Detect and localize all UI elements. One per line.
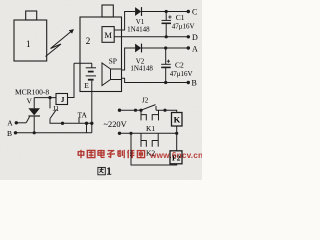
svg-text:1N4148: 1N4148 (127, 26, 150, 34)
wire F2 bottom loop (131, 133, 177, 165)
svg-text:B: B (192, 79, 197, 88)
svg-text:~220V: ~220V (104, 120, 127, 129)
svg-text:www.6ncv.cn: www.6ncv.cn (149, 151, 202, 160)
svg-text:J1: J1 (53, 105, 60, 113)
node: J1 to TA (61, 122, 64, 125)
arrowhead (69, 29, 74, 33)
node: thyristor cathode on B line (33, 131, 36, 134)
svg-text:47μ16V: 47μ16V (170, 70, 193, 78)
TA core tick (78, 117, 80, 123)
contact K1 (141, 110, 159, 120)
node: D line junction (165, 35, 168, 38)
gate lead (26, 117, 29, 123)
red watermark 中国电子制作网 (78, 150, 144, 158)
node: C line junction (165, 10, 168, 13)
motor M box (102, 27, 114, 43)
J2 right post (155, 106, 157, 110)
contact K2 (141, 133, 158, 146)
wire K coil bottom through lower wire to F2 top (176, 126, 178, 151)
svg-text:C2: C2 (175, 61, 184, 70)
receiver box 2 knob (102, 5, 113, 17)
TA loop left vertical (86, 123, 88, 133)
svg-text:2: 2 (86, 36, 91, 46)
wire M bottom to terminal D (114, 36, 188, 38)
svg-text:D: D (192, 33, 198, 42)
relay J box (56, 94, 68, 105)
terminal D (187, 35, 190, 38)
load F2 box (170, 151, 182, 164)
svg-text:K: K (174, 115, 181, 125)
svg-text:1: 1 (26, 39, 31, 49)
diode V1 (135, 7, 142, 16)
caption 图1 (98, 167, 105, 174)
transmitter box 1 (14, 20, 47, 61)
svg-text:C: C (192, 8, 197, 17)
wire M top to V1 riser (114, 12, 135, 31)
node: A line junction (164, 46, 167, 49)
svg-text:V: V (26, 97, 32, 106)
svg-text:47μ16V: 47μ16V (172, 22, 195, 30)
svg-text:A: A (192, 44, 198, 53)
thyristor V MCR100-8 (26, 98, 40, 133)
speaker SP (102, 63, 122, 86)
svg-text:M: M (104, 30, 112, 40)
receiver box 2 (80, 17, 122, 92)
transmitter box 1 knob (26, 11, 37, 20)
svg-text:1N4148: 1N4148 (130, 65, 153, 73)
wire SP top to V2 riser (122, 48, 136, 70)
wire V2 to terminal A (141, 47, 188, 49)
svg-text:MCR100-8: MCR100-8 (15, 87, 49, 96)
terminal A (left) (16, 122, 26, 124)
diode V2 (135, 44, 142, 53)
svg-text:J: J (61, 96, 65, 104)
svg-text:C1: C1 (176, 13, 185, 22)
svg-text:SP: SP (109, 57, 117, 66)
anode wire to J box (34, 97, 56, 99)
svg-text:A: A (7, 119, 13, 128)
battery E (74, 63, 96, 133)
svg-text:J2: J2 (142, 96, 149, 104)
wire V1 to terminal C (141, 11, 188, 13)
contact J2 blade (141, 105, 156, 111)
battery bottom lead down to TA wire and B line (91, 81, 93, 133)
relay K box (172, 113, 183, 127)
svg-text:B: B (7, 129, 12, 138)
contact J1 (50, 98, 63, 124)
svg-text:TA: TA (78, 111, 88, 120)
capacitor C1 (162, 12, 172, 37)
node: TA left loop (85, 122, 88, 125)
terminal B (right) (187, 81, 190, 84)
terminal C (187, 10, 190, 13)
node: B line junction (164, 81, 167, 84)
wire J2 to K box (156, 110, 177, 112)
terminal B (left) and B line (16, 132, 92, 134)
wire battery to relay J riser (68, 63, 75, 97)
svg-text:K1: K1 (146, 124, 155, 133)
TA primary wire (63, 122, 92, 124)
220V upper wire (120, 109, 142, 111)
capacitor C2 (161, 48, 171, 83)
wireless zigzag arrow (46, 30, 74, 57)
svg-text:E: E (84, 81, 89, 90)
220V lower wire (120, 132, 177, 134)
terminal A (right) (187, 46, 190, 49)
wire SP bottom to terminal B (122, 78, 189, 82)
node: TA right loop (90, 122, 93, 125)
node: anode/J1 junction (48, 96, 51, 99)
